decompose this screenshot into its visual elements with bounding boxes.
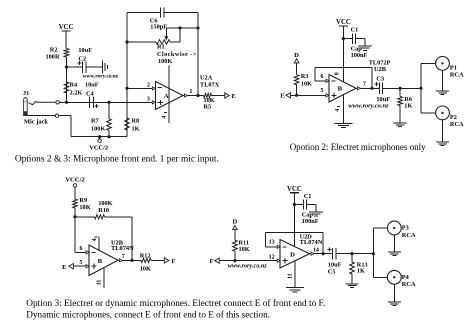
svg-text:R10: R10 (98, 207, 109, 214)
svg-text:3: 3 (147, 97, 150, 103)
svg-text:C3: C3 (376, 76, 384, 83)
svg-text:RCA: RCA (450, 72, 464, 79)
svg-text:R8: R8 (132, 118, 140, 125)
svg-text:6: 6 (80, 246, 83, 252)
svg-text:TL07X: TL07X (200, 82, 220, 89)
svg-text:www.rory.co.nz: www.rory.co.nz (83, 74, 119, 80)
svg-text:TL074N: TL074N (300, 239, 323, 246)
svg-text:www.rory.co.nz: www.rory.co.nz (348, 103, 389, 110)
svg-text:TL074N: TL074N (111, 245, 134, 252)
svg-text:R2: R2 (50, 47, 58, 54)
svg-text:2: 2 (147, 82, 150, 88)
svg-text:J1: J1 (23, 90, 29, 97)
svg-text:RCA: RCA (402, 232, 416, 239)
svg-text:4: 4 (162, 116, 168, 119)
svg-text:1K: 1K (357, 268, 365, 275)
svg-text:VCC: VCC (336, 19, 351, 26)
svg-text:12: 12 (269, 255, 275, 261)
svg-text:2.2K: 2.2K (70, 90, 83, 97)
svg-text:RCA: RCA (450, 121, 464, 128)
svg-text:C2: C2 (78, 56, 86, 63)
svg-text:U2A: U2A (200, 74, 213, 81)
svg-text:C1: C1 (351, 27, 359, 34)
svg-text:Opotion 2: Electret microphone: Opotion 2: Electret microphones only (290, 142, 426, 152)
svg-text:F: F (172, 258, 176, 265)
svg-text:100K: 100K (91, 126, 105, 133)
svg-text:100nF: 100nF (302, 218, 319, 225)
svg-text:P4: P4 (402, 274, 410, 281)
svg-text:R7: R7 (91, 118, 99, 125)
svg-text:VCC: VCC (287, 186, 302, 193)
svg-text:11: 11 (97, 280, 103, 286)
svg-text:5: 5 (80, 260, 83, 266)
svg-text:Mic jack: Mic jack (24, 119, 48, 126)
svg-text:7: 7 (363, 82, 366, 88)
svg-text:100R: 100R (46, 54, 60, 61)
svg-text:100nF: 100nF (351, 52, 368, 59)
svg-text:11: 11 (287, 273, 293, 279)
svg-text:10K: 10K (140, 265, 151, 272)
svg-text:1K: 1K (404, 103, 412, 110)
svg-text:C5: C5 (328, 268, 336, 275)
svg-text:F: F (209, 258, 213, 265)
svg-text:C1: C1 (304, 193, 312, 200)
svg-text:Option 3: Electret or dynamic: Option 3: Electret or dynamic microphone… (26, 298, 325, 309)
svg-text:1: 1 (190, 89, 193, 95)
svg-text:D: D (233, 219, 238, 226)
svg-text:R5: R5 (204, 103, 212, 110)
svg-text:RCA: RCA (402, 281, 416, 288)
svg-text:www.rory.co.nz: www.rory.co.nz (228, 262, 267, 269)
svg-text:14: 14 (313, 247, 319, 253)
svg-text:150pF: 150pF (150, 24, 167, 31)
svg-text:4: 4 (335, 109, 341, 112)
svg-text:B: B (98, 258, 103, 265)
svg-text:P1: P1 (450, 65, 457, 72)
svg-text:8: 8 (334, 72, 340, 75)
svg-text:E: E (280, 93, 285, 100)
svg-text:B: B (338, 86, 343, 93)
svg-text:100K: 100K (158, 58, 172, 65)
svg-text:VCC/2: VCC/2 (89, 145, 108, 152)
svg-text:VCC/2: VCC/2 (65, 177, 85, 184)
svg-text:10K: 10K (301, 80, 312, 87)
svg-text:Dynamic microphones, connect E: Dynamic microphones, connect E of front … (26, 309, 270, 319)
svg-text:P2: P2 (450, 114, 457, 121)
svg-text:10K: 10K (239, 246, 250, 253)
svg-text:R1: R1 (157, 44, 165, 51)
svg-text:C4: C4 (86, 91, 95, 98)
svg-text:A: A (164, 93, 169, 100)
svg-text:P3: P3 (402, 225, 409, 232)
svg-text:10K: 10K (79, 204, 90, 211)
svg-text:5: 5 (321, 88, 324, 94)
svg-text:D: D (290, 251, 295, 258)
svg-text:1K: 1K (132, 126, 140, 133)
svg-text:VCC: VCC (59, 24, 74, 31)
svg-text:R4: R4 (70, 82, 79, 89)
svg-text:Options 2 & 3: Microphone fron: Options 2 & 3: Microphone front end. 1 p… (15, 153, 219, 164)
svg-text:13: 13 (269, 240, 275, 246)
svg-text:E: E (62, 264, 67, 271)
svg-text:6: 6 (321, 74, 324, 80)
svg-text:R12: R12 (140, 253, 151, 260)
svg-text:7: 7 (122, 254, 125, 260)
svg-text:R9: R9 (79, 197, 87, 204)
svg-text:U2B: U2B (374, 66, 387, 73)
svg-text:R3: R3 (301, 73, 309, 80)
svg-text:4: 4 (92, 238, 98, 241)
svg-text:E: E (232, 93, 236, 100)
svg-text:10uF: 10uF (85, 82, 99, 89)
svg-text:10uF: 10uF (78, 47, 92, 54)
